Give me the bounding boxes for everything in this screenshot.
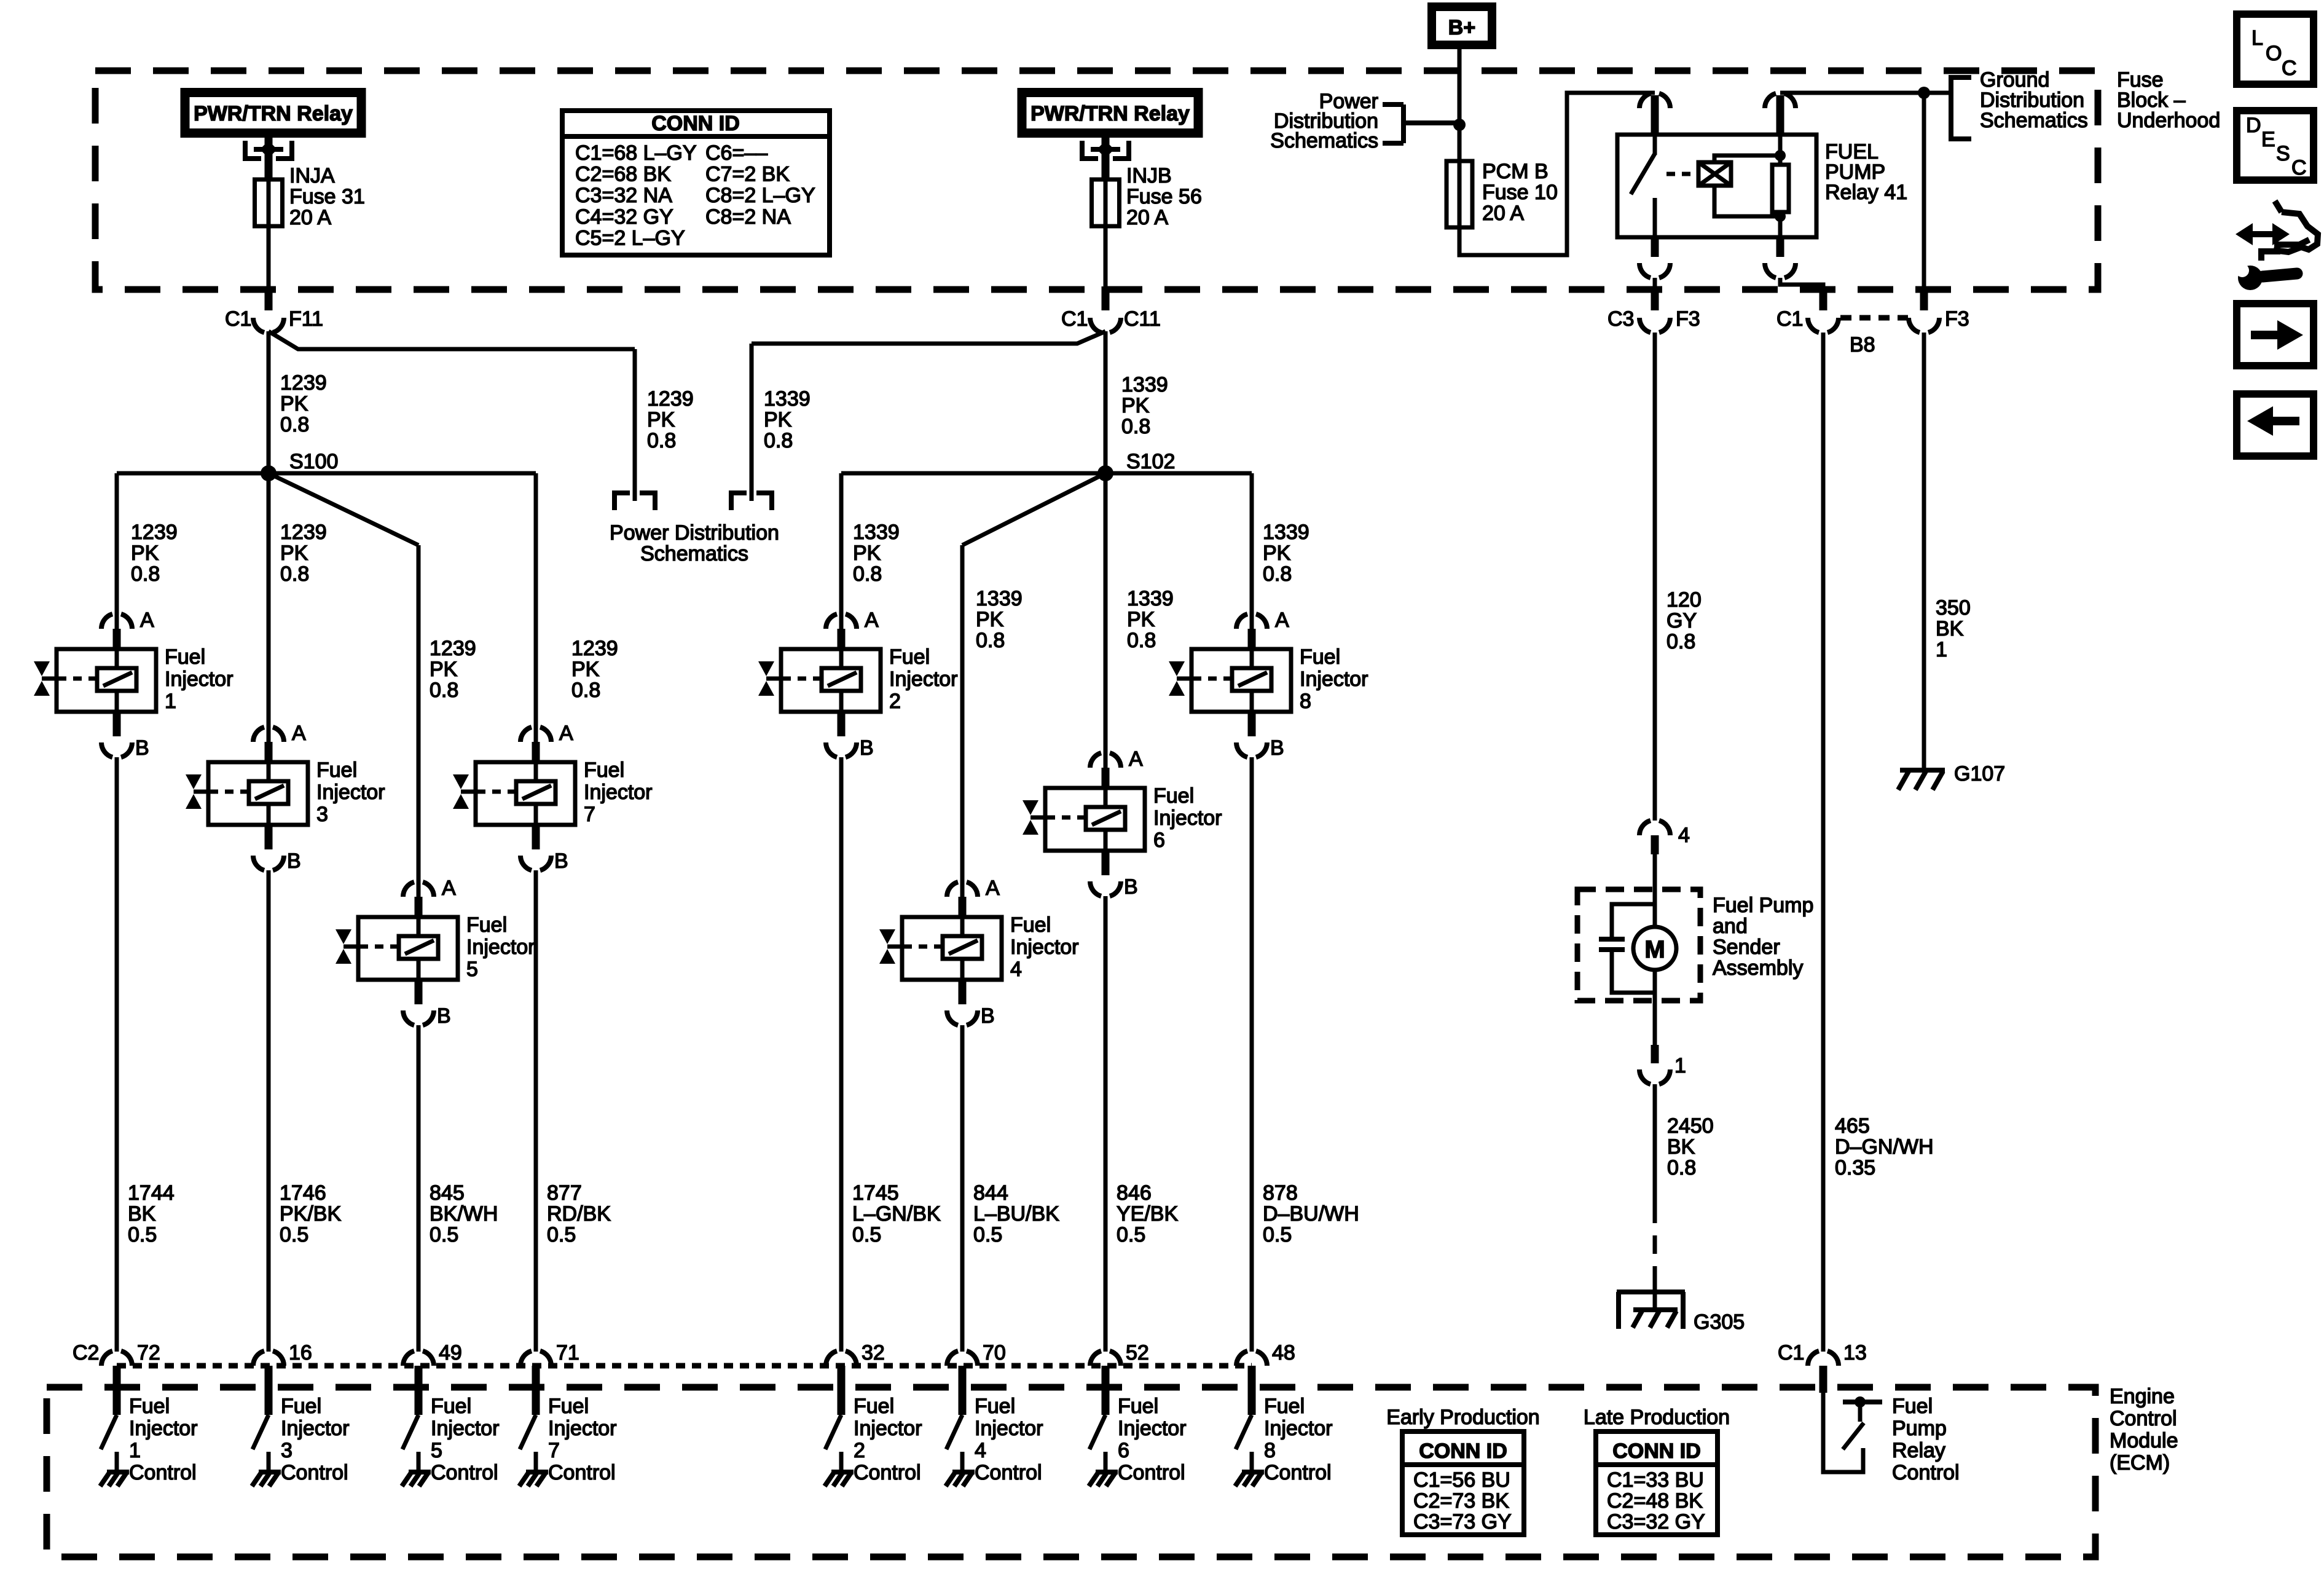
svg-text:PWR/TRN Relay: PWR/TRN Relay bbox=[194, 102, 353, 125]
svg-text:O: O bbox=[2266, 42, 2282, 65]
svg-text:1: 1 bbox=[1936, 638, 1947, 661]
svg-text:Fuel: Fuel bbox=[1264, 1395, 1305, 1418]
svg-text:0.5: 0.5 bbox=[852, 1223, 881, 1246]
svg-text:2: 2 bbox=[889, 690, 901, 713]
svg-text:CONN ID: CONN ID bbox=[1612, 1439, 1701, 1463]
svg-text:C7=2 BK: C7=2 BK bbox=[705, 163, 790, 186]
svg-text:Control: Control bbox=[129, 1461, 197, 1484]
svg-text:Injector: Injector bbox=[889, 667, 958, 691]
svg-text:B: B bbox=[287, 849, 301, 873]
svg-text:3: 3 bbox=[281, 1439, 292, 1462]
svg-text:Control: Control bbox=[854, 1461, 921, 1484]
svg-text:Control: Control bbox=[431, 1461, 498, 1484]
svg-text:C8=2 L–GY: C8=2 L–GY bbox=[705, 184, 815, 207]
svg-text:0.8: 0.8 bbox=[280, 413, 309, 436]
svg-text:C3=73 GY: C3=73 GY bbox=[1413, 1510, 1512, 1534]
svg-text:A: A bbox=[442, 876, 456, 900]
svg-text:0.8: 0.8 bbox=[280, 562, 309, 586]
svg-text:0.8: 0.8 bbox=[430, 679, 458, 702]
svg-text:(ECM): (ECM) bbox=[2110, 1451, 2170, 1475]
svg-text:0.8: 0.8 bbox=[1666, 630, 1695, 653]
svg-text:PK: PK bbox=[1263, 541, 1291, 565]
svg-text:B: B bbox=[135, 736, 149, 760]
svg-text:CONN ID: CONN ID bbox=[651, 112, 740, 135]
svg-text:Fuel: Fuel bbox=[431, 1395, 471, 1418]
svg-text:PK: PK bbox=[571, 658, 600, 681]
svg-text:Fuel: Fuel bbox=[1153, 784, 1194, 808]
svg-text:3: 3 bbox=[316, 803, 328, 826]
svg-text:7: 7 bbox=[584, 803, 595, 826]
svg-text:Fuse 10: Fuse 10 bbox=[1482, 181, 1558, 204]
svg-text:A: A bbox=[1275, 608, 1289, 632]
svg-text:8: 8 bbox=[1300, 690, 1311, 713]
svg-text:C5=2 L–GY: C5=2 L–GY bbox=[575, 226, 685, 250]
svg-text:C1: C1 bbox=[1061, 307, 1088, 331]
svg-text:350: 350 bbox=[1936, 596, 1971, 620]
svg-text:Underhood: Underhood bbox=[2117, 109, 2220, 132]
svg-text:0.8: 0.8 bbox=[1121, 415, 1150, 438]
svg-text:1339: 1339 bbox=[853, 521, 900, 544]
svg-text:S: S bbox=[2276, 142, 2290, 165]
svg-text:8: 8 bbox=[1264, 1439, 1276, 1462]
svg-text:70: 70 bbox=[983, 1341, 1006, 1364]
svg-text:and: and bbox=[1713, 915, 1748, 938]
svg-text:PK: PK bbox=[976, 608, 1004, 631]
svg-text:Injector: Injector bbox=[466, 935, 535, 959]
svg-text:Fuel: Fuel bbox=[584, 758, 624, 782]
svg-text:A: A bbox=[559, 722, 573, 745]
svg-text:0.8: 0.8 bbox=[853, 562, 882, 586]
svg-text:Fuel: Fuel bbox=[165, 645, 205, 669]
svg-text:C6=––: C6=–– bbox=[705, 141, 767, 165]
svg-text:Schematics: Schematics bbox=[1980, 109, 2088, 132]
svg-text:PK: PK bbox=[764, 408, 792, 431]
svg-text:B: B bbox=[981, 1004, 995, 1028]
svg-text:PCM B: PCM B bbox=[1482, 160, 1549, 183]
svg-text:52: 52 bbox=[1126, 1341, 1149, 1364]
svg-text:Fuel: Fuel bbox=[1010, 913, 1051, 937]
svg-text:A: A bbox=[140, 608, 154, 632]
svg-text:Engine: Engine bbox=[2110, 1385, 2175, 1408]
svg-text:1744: 1744 bbox=[128, 1181, 175, 1205]
svg-text:S100: S100 bbox=[289, 450, 338, 473]
svg-text:Fuel: Fuel bbox=[548, 1395, 589, 1418]
svg-text:C1: C1 bbox=[1778, 1341, 1804, 1364]
svg-text:1339: 1339 bbox=[764, 387, 811, 411]
svg-text:G305: G305 bbox=[1694, 1310, 1745, 1334]
svg-text:C11: C11 bbox=[1124, 307, 1161, 331]
svg-text:B: B bbox=[860, 736, 874, 760]
svg-text:PK: PK bbox=[131, 541, 159, 565]
svg-text:0.8: 0.8 bbox=[647, 429, 676, 452]
svg-text:D–BU/WH: D–BU/WH bbox=[1263, 1202, 1359, 1226]
svg-text:B: B bbox=[1270, 736, 1284, 760]
svg-text:Control: Control bbox=[1118, 1461, 1185, 1484]
svg-text:PK: PK bbox=[280, 541, 308, 565]
svg-text:Fuel: Fuel bbox=[975, 1395, 1015, 1418]
svg-text:0.8: 0.8 bbox=[1127, 629, 1156, 652]
svg-text:L: L bbox=[2251, 26, 2263, 50]
svg-text:1339: 1339 bbox=[976, 587, 1023, 610]
svg-text:Injector: Injector bbox=[165, 667, 234, 691]
svg-text:C3=32 GY: C3=32 GY bbox=[1607, 1510, 1705, 1534]
svg-text:C3=32 NA: C3=32 NA bbox=[575, 184, 672, 207]
svg-text:1339: 1339 bbox=[1263, 521, 1309, 544]
svg-text:Injector: Injector bbox=[854, 1417, 922, 1440]
svg-text:INJB: INJB bbox=[1126, 164, 1172, 187]
svg-text:C1=68 L–GY: C1=68 L–GY bbox=[575, 141, 697, 165]
svg-text:0.8: 0.8 bbox=[1667, 1156, 1696, 1179]
svg-text:C1=56 BU: C1=56 BU bbox=[1413, 1468, 1510, 1492]
svg-text:1239: 1239 bbox=[280, 371, 327, 395]
svg-text:Injector: Injector bbox=[584, 781, 653, 804]
svg-text:Injector: Injector bbox=[1300, 667, 1368, 691]
svg-text:0.8: 0.8 bbox=[131, 562, 160, 586]
svg-text:1239: 1239 bbox=[647, 387, 694, 411]
svg-text:Fuel: Fuel bbox=[889, 645, 930, 669]
svg-text:Late Production: Late Production bbox=[1584, 1406, 1730, 1429]
svg-text:0.5: 0.5 bbox=[973, 1223, 1002, 1246]
svg-text:C1: C1 bbox=[225, 307, 251, 331]
svg-text:Injector: Injector bbox=[548, 1417, 617, 1440]
svg-text:C2=48 BK: C2=48 BK bbox=[1607, 1489, 1703, 1513]
svg-text:INJA: INJA bbox=[289, 164, 335, 187]
svg-text:Pump: Pump bbox=[1892, 1417, 1947, 1440]
svg-text:2: 2 bbox=[854, 1439, 865, 1462]
svg-text:B: B bbox=[437, 1004, 451, 1028]
svg-text:Fuel: Fuel bbox=[129, 1395, 170, 1418]
svg-text:F11: F11 bbox=[289, 307, 323, 331]
svg-text:PK: PK bbox=[1121, 394, 1150, 417]
svg-text:Fuel: Fuel bbox=[466, 913, 507, 937]
svg-text:6: 6 bbox=[1153, 829, 1165, 852]
svg-text:Fuel Pump: Fuel Pump bbox=[1713, 894, 1813, 917]
svg-text:0.35: 0.35 bbox=[1835, 1156, 1875, 1179]
svg-text:1746: 1746 bbox=[280, 1181, 326, 1205]
svg-text:20 A: 20 A bbox=[1482, 202, 1524, 225]
svg-text:1339: 1339 bbox=[1127, 587, 1174, 610]
svg-text:C4=32 GY: C4=32 GY bbox=[575, 205, 673, 229]
svg-text:120: 120 bbox=[1666, 588, 1702, 612]
svg-text:1339: 1339 bbox=[1121, 373, 1168, 396]
svg-text:PK: PK bbox=[1127, 608, 1155, 631]
svg-text:S102: S102 bbox=[1126, 450, 1175, 473]
svg-text:A: A bbox=[1129, 747, 1143, 771]
svg-text:L–GN/BK: L–GN/BK bbox=[852, 1202, 941, 1226]
svg-text:Injector: Injector bbox=[975, 1417, 1043, 1440]
svg-text:1239: 1239 bbox=[571, 637, 618, 660]
svg-text:BK/WH: BK/WH bbox=[430, 1202, 498, 1226]
svg-text:C1: C1 bbox=[1776, 307, 1803, 331]
svg-text:C1=33 BU: C1=33 BU bbox=[1607, 1468, 1704, 1492]
svg-text:BK: BK bbox=[1936, 617, 1964, 640]
svg-text:PK: PK bbox=[430, 658, 458, 681]
svg-text:0.8: 0.8 bbox=[764, 429, 793, 452]
svg-text:1: 1 bbox=[1674, 1054, 1686, 1077]
svg-text:Schematics: Schematics bbox=[1270, 129, 1378, 152]
svg-text:M: M bbox=[1644, 936, 1665, 963]
svg-text:PK/BK: PK/BK bbox=[280, 1202, 341, 1226]
svg-text:Injector: Injector bbox=[1118, 1417, 1187, 1440]
svg-text:7: 7 bbox=[548, 1439, 560, 1462]
svg-text:1: 1 bbox=[129, 1439, 141, 1462]
svg-text:GY: GY bbox=[1666, 609, 1697, 632]
svg-text:E: E bbox=[2261, 128, 2275, 151]
svg-text:0.5: 0.5 bbox=[547, 1223, 576, 1246]
svg-text:Injector: Injector bbox=[129, 1417, 198, 1440]
svg-text:Fuel: Fuel bbox=[316, 758, 357, 782]
svg-text:Fuel: Fuel bbox=[281, 1395, 321, 1418]
svg-text:Relay 41: Relay 41 bbox=[1825, 181, 1907, 204]
svg-text:1239: 1239 bbox=[280, 521, 327, 544]
svg-text:5: 5 bbox=[466, 958, 478, 981]
svg-text:465: 465 bbox=[1835, 1114, 1870, 1138]
svg-text:C: C bbox=[2291, 156, 2307, 179]
svg-text:G107: G107 bbox=[1954, 762, 2005, 786]
svg-text:Injector: Injector bbox=[316, 781, 385, 804]
svg-text:C: C bbox=[2282, 57, 2297, 80]
svg-text:PWR/TRN Relay: PWR/TRN Relay bbox=[1030, 102, 1190, 125]
svg-text:D–GN/WH: D–GN/WH bbox=[1835, 1135, 1934, 1159]
svg-text:0.5: 0.5 bbox=[280, 1223, 308, 1246]
svg-text:C2: C2 bbox=[73, 1341, 99, 1364]
svg-text:Fuel: Fuel bbox=[1892, 1395, 1933, 1418]
svg-text:Control: Control bbox=[548, 1461, 616, 1484]
svg-text:A: A bbox=[865, 608, 879, 632]
svg-text:0.8: 0.8 bbox=[976, 629, 1005, 652]
svg-text:Control: Control bbox=[975, 1461, 1042, 1484]
svg-text:B+: B+ bbox=[1448, 16, 1475, 39]
svg-text:Injector: Injector bbox=[1264, 1417, 1333, 1440]
svg-text:Fuel: Fuel bbox=[1118, 1395, 1158, 1418]
svg-text:PK: PK bbox=[853, 541, 881, 565]
svg-text:0.5: 0.5 bbox=[1263, 1223, 1292, 1246]
svg-text:C2=68 BK: C2=68 BK bbox=[575, 163, 671, 186]
svg-text:Control: Control bbox=[281, 1461, 348, 1484]
svg-text:5: 5 bbox=[431, 1439, 442, 1462]
svg-text:D: D bbox=[2246, 114, 2261, 137]
svg-text:C3: C3 bbox=[1608, 307, 1634, 331]
svg-text:1239: 1239 bbox=[131, 521, 178, 544]
svg-text:13: 13 bbox=[1843, 1341, 1867, 1364]
svg-text:16: 16 bbox=[289, 1341, 312, 1364]
svg-text:20 A: 20 A bbox=[1126, 206, 1168, 229]
svg-text:844: 844 bbox=[973, 1181, 1008, 1205]
svg-text:0.5: 0.5 bbox=[430, 1223, 458, 1246]
svg-text:PK: PK bbox=[280, 392, 308, 415]
svg-text:Fuel: Fuel bbox=[854, 1395, 894, 1418]
svg-text:6: 6 bbox=[1118, 1439, 1129, 1462]
svg-text:1745: 1745 bbox=[852, 1181, 899, 1205]
svg-text:A: A bbox=[986, 876, 1000, 900]
svg-text:1: 1 bbox=[165, 690, 176, 713]
svg-text:PK: PK bbox=[647, 408, 675, 431]
svg-text:49: 49 bbox=[439, 1341, 462, 1364]
svg-text:RD/BK: RD/BK bbox=[547, 1202, 611, 1226]
svg-text:C2=73 BK: C2=73 BK bbox=[1413, 1489, 1509, 1513]
svg-text:Control: Control bbox=[1892, 1461, 1960, 1484]
svg-text:0.8: 0.8 bbox=[571, 679, 600, 702]
svg-text:72: 72 bbox=[137, 1341, 160, 1364]
svg-text:F3: F3 bbox=[1676, 307, 1700, 331]
svg-text:32: 32 bbox=[862, 1341, 885, 1364]
svg-text:A: A bbox=[292, 722, 306, 745]
svg-text:Fuse 56: Fuse 56 bbox=[1126, 185, 1202, 208]
svg-text:BK: BK bbox=[1667, 1135, 1695, 1159]
svg-text:B: B bbox=[554, 849, 568, 873]
svg-text:BK: BK bbox=[128, 1202, 156, 1226]
svg-text:2450: 2450 bbox=[1667, 1114, 1714, 1138]
svg-text:Control: Control bbox=[2110, 1407, 2177, 1430]
svg-text:B: B bbox=[1124, 875, 1138, 899]
svg-text:Relay: Relay bbox=[1892, 1439, 1945, 1462]
svg-text:B8: B8 bbox=[1850, 333, 1875, 356]
svg-text:Schematics: Schematics bbox=[640, 542, 748, 565]
svg-text:846: 846 bbox=[1117, 1181, 1152, 1205]
svg-text:48: 48 bbox=[1272, 1341, 1295, 1364]
svg-text:20 A: 20 A bbox=[289, 206, 331, 229]
svg-text:1239: 1239 bbox=[430, 637, 476, 660]
svg-text:CONN ID: CONN ID bbox=[1419, 1439, 1507, 1463]
svg-text:71: 71 bbox=[556, 1341, 579, 1364]
svg-text:Power Distribution: Power Distribution bbox=[610, 521, 779, 545]
svg-text:Fuse 31: Fuse 31 bbox=[289, 185, 365, 208]
svg-text:Sender: Sender bbox=[1713, 935, 1780, 959]
svg-text:F3: F3 bbox=[1945, 307, 1969, 331]
svg-text:4: 4 bbox=[1678, 824, 1690, 847]
svg-text:Fuel: Fuel bbox=[1300, 645, 1340, 669]
svg-text:878: 878 bbox=[1263, 1181, 1298, 1205]
svg-text:L–BU/BK: L–BU/BK bbox=[973, 1202, 1059, 1226]
svg-text:0.5: 0.5 bbox=[128, 1223, 157, 1246]
svg-text:4: 4 bbox=[1010, 958, 1022, 981]
svg-text:0.5: 0.5 bbox=[1117, 1223, 1145, 1246]
svg-text:Module: Module bbox=[2110, 1429, 2178, 1452]
svg-text:Injector: Injector bbox=[1153, 806, 1222, 830]
svg-text:Early Production: Early Production bbox=[1386, 1406, 1539, 1429]
svg-text:0.8: 0.8 bbox=[1263, 562, 1292, 586]
svg-text:Control: Control bbox=[1264, 1461, 1332, 1484]
svg-text:YE/BK: YE/BK bbox=[1117, 1202, 1178, 1226]
svg-text:Injector: Injector bbox=[1010, 935, 1079, 959]
svg-text:Injector: Injector bbox=[281, 1417, 350, 1440]
svg-text:4: 4 bbox=[975, 1439, 986, 1462]
svg-text:845: 845 bbox=[430, 1181, 465, 1205]
svg-text:Injector: Injector bbox=[431, 1417, 500, 1440]
svg-text:Assembly: Assembly bbox=[1713, 956, 1803, 980]
svg-text:C8=2 NA: C8=2 NA bbox=[705, 205, 791, 229]
svg-text:877: 877 bbox=[547, 1181, 582, 1205]
